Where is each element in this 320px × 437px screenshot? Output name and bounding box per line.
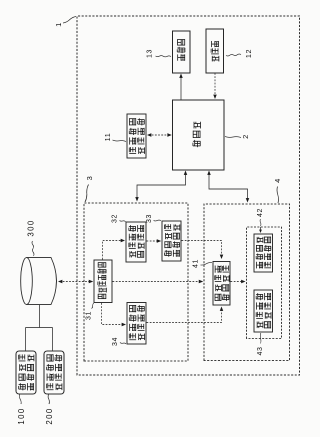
box E in 42: [254, 290, 273, 332]
box: control unit 2: [173, 100, 225, 170]
box 32: [126, 222, 146, 262]
svg-text:100: 100: [17, 407, 26, 424]
wire: control to display: [180, 76, 182, 100]
wire: box33-box41: [182, 241, 222, 258]
svg-text:1: 1: [54, 22, 63, 27]
wire: box32-box33: [147, 240, 160, 242]
svg-text:11: 11: [103, 133, 112, 142]
svg-text:300: 300: [27, 219, 36, 236]
wire: cylinder to 100/200: [26, 305, 53, 351]
wire: memory-control: [149, 134, 171, 136]
svg-text:32: 32: [112, 214, 119, 223]
svg-text:42: 42: [257, 208, 264, 217]
wire: box31-box34: [102, 303, 125, 325]
svg-text:200: 200: [45, 407, 54, 424]
wire: control-unit3: [137, 173, 186, 200]
svg-text:33: 33: [146, 214, 153, 223]
wire: control-unit4: [209, 173, 248, 201]
outer dashed box: unit 1: [77, 16, 300, 375]
dashed sub-box: unit 42: [247, 227, 282, 339]
box 100 rounded: [16, 351, 36, 394]
dashed box: unit 4: [204, 204, 290, 361]
box 33: [162, 221, 181, 261]
cylinder: network 300: [27, 258, 57, 305]
svg-text:2: 2: [241, 134, 250, 139]
svg-text:43: 43: [257, 347, 264, 356]
svg-text:12: 12: [244, 49, 253, 58]
wire: box34-box41: [147, 309, 222, 323]
svg-text:3: 3: [85, 176, 94, 181]
svg-text:31: 31: [86, 311, 93, 320]
svg-text:34: 34: [112, 337, 119, 346]
wire: box31-box32: [103, 241, 124, 260]
wire: cylinder-box31: [60, 281, 92, 283]
box D in 42: [254, 234, 273, 272]
box: display unit: [173, 31, 191, 73]
box: operation unit: [206, 29, 224, 73]
wire: box31-unit4: [113, 281, 202, 283]
box 34: [127, 303, 146, 345]
box: memory unit 11: [127, 114, 146, 158]
wire: operation to control: [214, 73, 216, 97]
wire: box41-unit42: [231, 281, 244, 283]
svg-text:4: 4: [273, 178, 282, 183]
dashed box: unit 3: [84, 203, 188, 361]
box 41: [213, 262, 230, 306]
svg-text:13: 13: [147, 49, 154, 58]
svg-text:41: 41: [193, 259, 200, 268]
box 31: data receiving unit: [94, 260, 112, 303]
box 200 rounded: [44, 351, 64, 394]
